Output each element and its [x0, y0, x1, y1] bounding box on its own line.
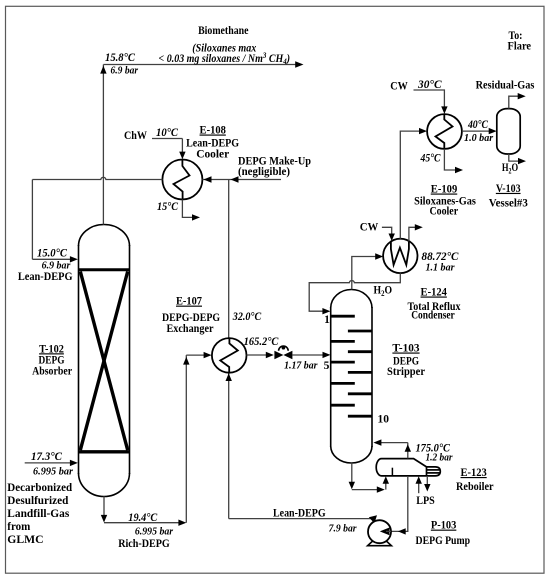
svg-text:Cooler: Cooler [196, 148, 229, 160]
svg-text:Lean-DEPG: Lean-DEPG [18, 269, 73, 283]
svg-text:1: 1 [324, 314, 330, 326]
svg-text:DEPG Pump: DEPG Pump [416, 533, 471, 547]
wire CW return from E-124 [409, 227, 420, 241]
wire CW supply to E-109 [414, 90, 445, 111]
label ChW 10C [124, 127, 178, 142]
label E-124 [408, 287, 461, 322]
svg-text:Cooler: Cooler [429, 205, 458, 217]
svg-text:1.0 bar: 1.0 bar [464, 132, 494, 144]
svg-text:GLMC: GLMC [7, 532, 43, 546]
svg-text:32.0°C: 32.0°C [232, 311, 262, 323]
label 17.3C 6.995 bar feed [25, 451, 78, 477]
column T-102 DEPG Absorber shell [79, 225, 130, 497]
svg-text:Flare: Flare [508, 39, 532, 53]
svg-text:E-108: E-108 [200, 125, 227, 137]
svg-text:Rich-DEPG: Rich-DEPG [118, 536, 170, 550]
label E-108 [186, 125, 239, 161]
label landfill gas source [7, 480, 72, 546]
svg-text:Lean-DEPG: Lean-DEPG [273, 506, 326, 520]
label CW 30C [390, 79, 442, 93]
valve letdown [274, 346, 292, 359]
svg-text:6.9 bar: 6.9 bar [111, 65, 139, 77]
label To: Flare [508, 28, 532, 53]
wire reboiler vapor return to stripper [377, 443, 408, 459]
wire CW into E-124 [382, 227, 392, 236]
reboiler E-123 kettle [376, 459, 440, 476]
svg-text:Landfill-Gas: Landfill-Gas [7, 506, 69, 520]
label 15.0C 6.9 bar Lean-DEPG [18, 247, 73, 283]
svg-text:Stripper: Stripper [387, 366, 425, 378]
wire reboiler lean DEPG to pump [391, 476, 408, 531]
heat exchanger E-109 siloxanes gas cooler [427, 114, 462, 149]
wire lean DEPG riser from pump through E-107 to E-108 [229, 180, 372, 519]
svg-text:1.17 bar: 1.17 bar [284, 360, 318, 372]
vessel V-103 [497, 109, 520, 154]
wire condensate reflux from E-124 to stripper tray 1 with hop [309, 273, 400, 311]
wire LPS in [416, 476, 422, 493]
wire E-107 to valve [247, 352, 274, 358]
svg-text:from: from [7, 519, 30, 533]
wire siloxanes gas from E-124 top to E-109 [400, 131, 423, 239]
svg-text:15°C: 15°C [157, 201, 178, 213]
svg-text:CW: CW [360, 220, 379, 234]
label E-123 Reboiler [456, 467, 494, 493]
heat exchanger E-124 total reflux condenser [383, 239, 417, 273]
svg-text:10°C: 10°C [156, 127, 178, 139]
svg-text:Condenser: Condenser [411, 310, 455, 322]
svg-text:CW: CW [390, 79, 408, 93]
label tray numbers [324, 314, 390, 426]
svg-text:15.0°C: 15.0°C [37, 247, 67, 259]
wire E-109 to V-103 [462, 128, 497, 134]
svg-text:E-124: E-124 [421, 287, 448, 299]
svg-text:T-103: T-103 [392, 343, 419, 355]
svg-text:10: 10 [378, 414, 390, 426]
wire stripper overhead vapor to E-124 [352, 257, 380, 290]
wire rich DEPG from absorber bottom to E-107 [104, 355, 206, 523]
svg-text:V-103: V-103 [496, 183, 521, 195]
label DEPG Make-Up (negligible) [238, 156, 311, 179]
absorber packing top line [79, 268, 130, 271]
svg-text:6.995 bar: 6.995 bar [33, 465, 74, 477]
label 88.72C 1.1 bar [422, 251, 459, 273]
svg-text:P-103: P-103 [431, 520, 457, 532]
svg-text:Decarbonized: Decarbonized [7, 480, 72, 494]
label T-102 [32, 343, 72, 377]
svg-text:ChW: ChW [124, 128, 147, 142]
wire E-108 outlet to absorber (lean DEPG) with hop over riser [32, 177, 162, 259]
wire ChW supply to E-108 [152, 139, 186, 160]
label 19.4C 6.995 bar Rich-DEPG [118, 512, 174, 550]
wire H2O from V-103 bottom [509, 154, 523, 161]
wire LPS condensate out [424, 476, 430, 492]
wire biomethane product arrow [103, 61, 303, 67]
svg-text:Reboiler: Reboiler [456, 481, 494, 493]
svg-text:1.1 bar: 1.1 bar [426, 261, 456, 273]
svg-text:1.2 bar: 1.2 bar [426, 452, 454, 464]
svg-text:E-107: E-107 [176, 296, 202, 308]
column T-103 DEPG Stripper shell [331, 290, 372, 464]
wire stripper bottoms to reboiler [352, 463, 386, 490]
svg-text:Absorber: Absorber [32, 366, 72, 378]
svg-text:45°C: 45°C [420, 153, 441, 165]
svg-text:E-109: E-109 [431, 184, 458, 196]
absorber packing X [80, 271, 127, 450]
pump P-103 [368, 520, 392, 546]
svg-text:30°C: 30°C [417, 79, 442, 91]
svg-text:17.3°C: 17.3°C [31, 451, 62, 463]
svg-text:(negligible): (negligible) [238, 166, 290, 178]
label E-107 [162, 296, 220, 335]
svg-text:19.4°C: 19.4°C [128, 512, 157, 524]
wire ChW return from E-108 bottom [182, 200, 196, 218]
svg-text:E-123: E-123 [461, 467, 487, 479]
svg-text:Residual-Gas: Residual-Gas [476, 79, 535, 91]
wire CW return from E-109 bottom [444, 149, 459, 170]
svg-text:165.2°C: 165.2°C [244, 336, 279, 348]
svg-text:Desulfurized: Desulfurized [7, 493, 68, 507]
label V-103 [489, 183, 528, 210]
absorber packing bottom line [79, 450, 130, 453]
svg-text:< 0.03 mg siloxanes / Nm3 CH4): < 0.03 mg siloxanes / Nm3 CH4) [159, 51, 291, 66]
wire biomethane riser from absorber top [100, 65, 106, 225]
wire DEPG make-up into E-108 [202, 176, 281, 182]
label P-103 DEPG Pump [416, 520, 471, 548]
svg-text:7.9 bar: 7.9 bar [329, 523, 358, 535]
label 175.0C 1.2 bar [415, 442, 453, 463]
svg-text:Vessel#3: Vessel#3 [489, 198, 528, 210]
svg-text:Exchanger: Exchanger [167, 323, 214, 335]
wire valve to stripper feed tray 5 [292, 352, 330, 358]
svg-text:T-102: T-102 [39, 343, 64, 355]
svg-text:5: 5 [324, 360, 330, 372]
svg-text:15.8°C: 15.8°C [105, 52, 135, 64]
svg-text:Biomethane: Biomethane [198, 23, 249, 37]
heat exchanger E-107 [212, 338, 247, 373]
label E-109 [414, 184, 476, 218]
label 40C 1.0 bar [464, 119, 494, 144]
wire residual gas from V-103 top [509, 96, 523, 108]
label biomethane stream [105, 23, 290, 77]
label T-103 [387, 343, 425, 379]
stripper trays [331, 316, 372, 416]
heat exchanger E-108 [162, 160, 202, 200]
label Lean-DEPG 7.9 bar pump discharge [273, 506, 357, 535]
svg-text:LPS: LPS [416, 493, 435, 507]
svg-text:40°C: 40°C [467, 119, 488, 131]
